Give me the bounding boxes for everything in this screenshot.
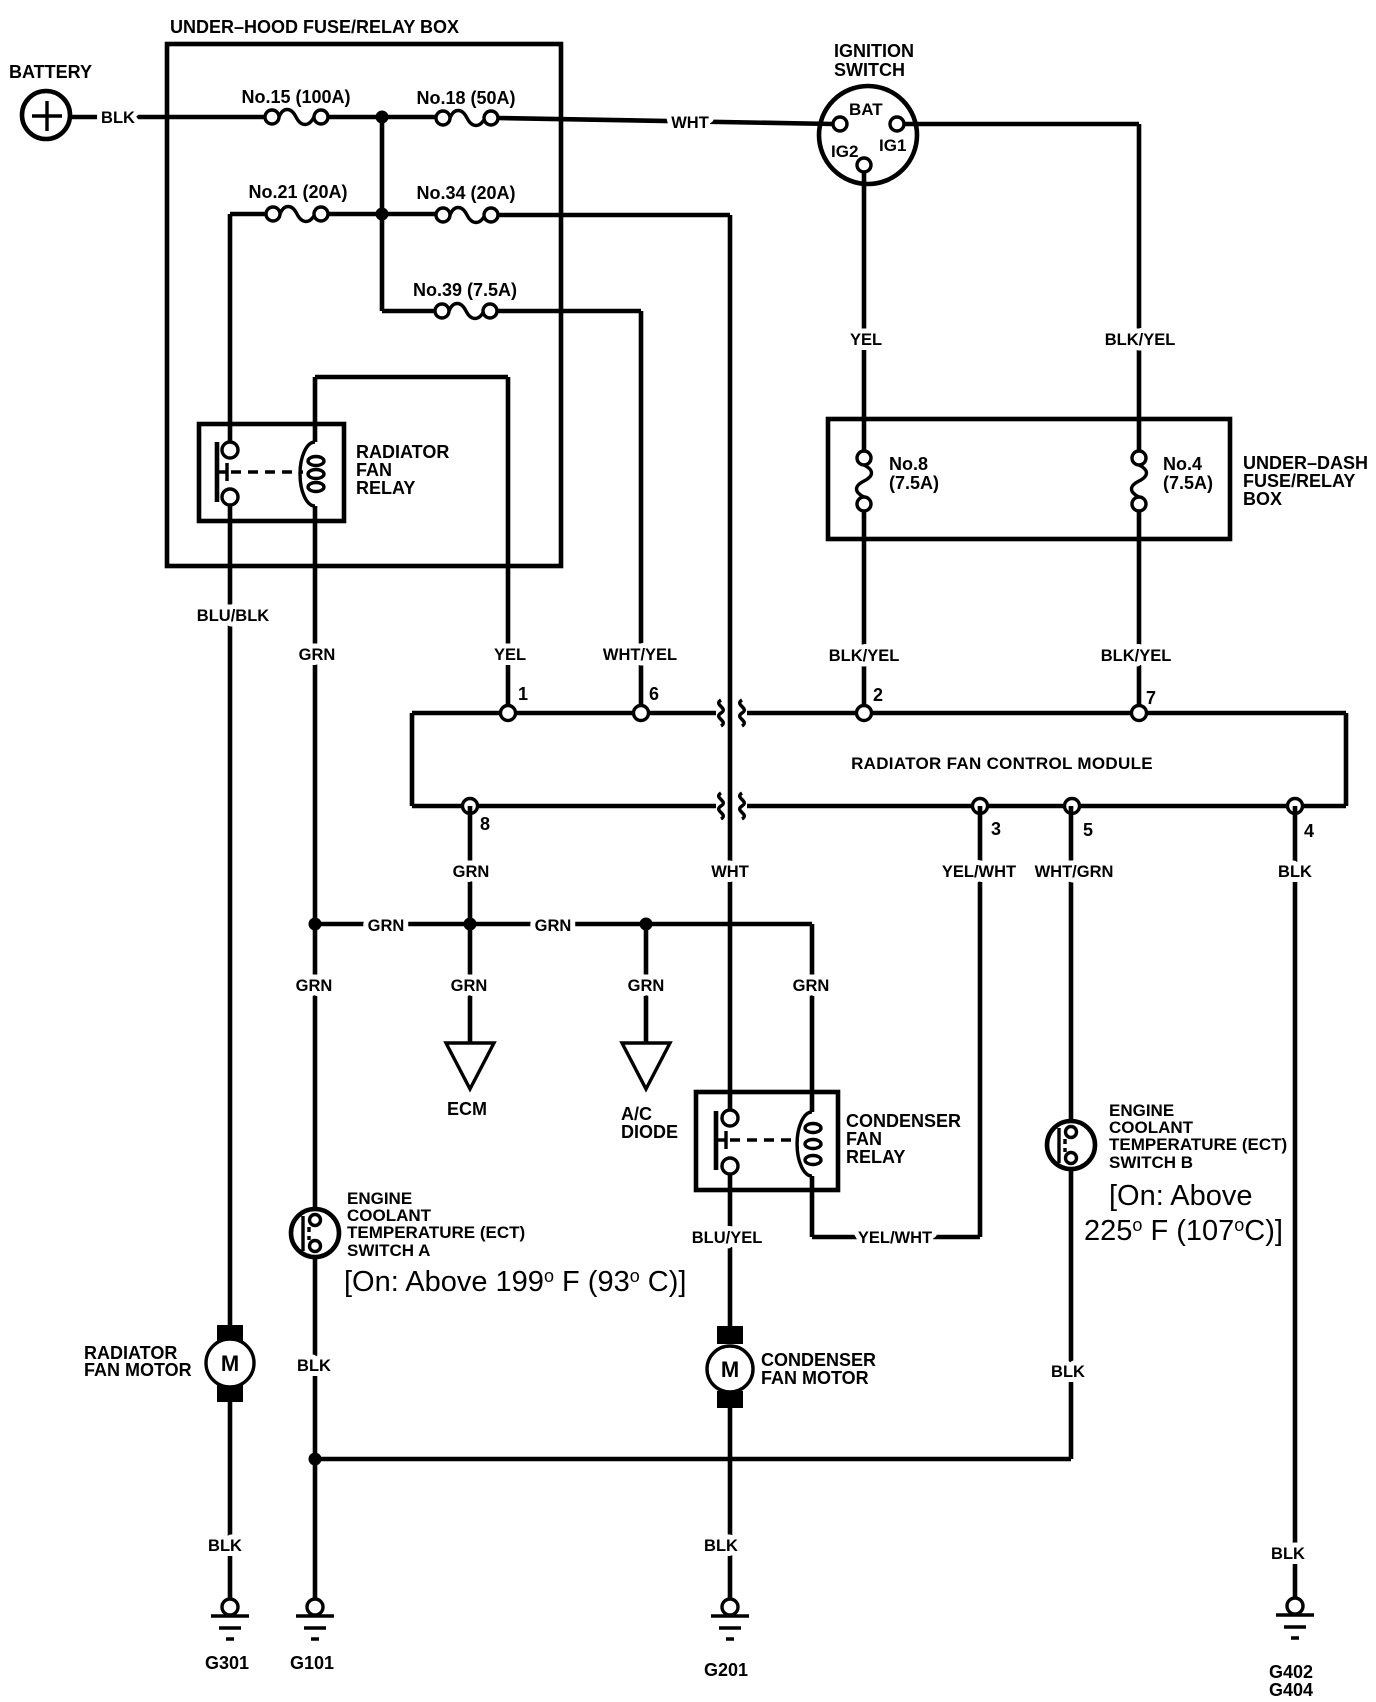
wire BLU/BLK relay contact down to radiator fan motor xyxy=(228,505,233,1325)
svg-text:WHT: WHT xyxy=(711,863,749,881)
svg-text:SWITCH A: SWITCH A xyxy=(347,1241,430,1260)
svg-text:M: M xyxy=(221,1351,239,1376)
terminal BAT xyxy=(833,117,847,131)
wire GRN relay coil down xyxy=(313,506,318,1209)
svg-text:CONDENSER: CONDENSER xyxy=(761,1350,876,1370)
wire BLK module pin 4 down to ground G402 xyxy=(1293,806,1298,1598)
svg-text:No.4: No.4 xyxy=(1163,454,1202,474)
svg-text:RADIATOR FAN CONTROL MODULE: RADIATOR FAN CONTROL MODULE xyxy=(851,754,1153,773)
wire BLU/YEL relay contact down to condenser fan motor xyxy=(728,1174,733,1326)
fuse No.18 (50A) xyxy=(436,111,498,126)
svg-text:YEL: YEL xyxy=(494,646,526,664)
svg-text:BLU/BLK: BLU/BLK xyxy=(197,607,269,625)
svg-text:FAN MOTOR: FAN MOTOR xyxy=(84,1360,192,1380)
svg-text:BLK: BLK xyxy=(704,1537,738,1555)
svg-text:WHT/GRN: WHT/GRN xyxy=(1035,863,1114,881)
pin 4 xyxy=(1288,799,1303,814)
svg-text:225o F (107oC)]: 225o F (107oC)] xyxy=(1084,1215,1283,1247)
radiator fan relay RY1 xyxy=(199,424,344,521)
wire GRN distribution bus xyxy=(315,924,812,1112)
svg-text:No.18 (50A): No.18 (50A) xyxy=(416,88,515,108)
svg-text:IGNITION: IGNITION xyxy=(834,41,914,61)
svg-text:7: 7 xyxy=(1146,688,1156,708)
wire battery bus vertical xyxy=(382,117,435,311)
svg-text:4: 4 xyxy=(1304,821,1314,841)
svg-text:2: 2 xyxy=(873,685,883,705)
wire BLK ECT switch A down to ground G101 xyxy=(313,1257,318,1598)
pin 8 xyxy=(463,799,478,814)
svg-text:No.8: No.8 xyxy=(889,454,928,474)
ECT switch B SW3 xyxy=(1047,1121,1095,1169)
svg-text:M: M xyxy=(721,1357,739,1382)
svg-text:1: 1 xyxy=(518,684,528,704)
svg-text:GRN: GRN xyxy=(296,977,333,995)
svg-text:G201: G201 xyxy=(704,1660,748,1680)
svg-text:No.21 (20A): No.21 (20A) xyxy=(248,182,347,202)
svg-text:YEL/WHT: YEL/WHT xyxy=(858,1229,932,1247)
svg-text:No.39 (7.5A): No.39 (7.5A) xyxy=(413,280,517,300)
svg-text:BAT: BAT xyxy=(849,100,883,119)
svg-text:RELAY: RELAY xyxy=(356,478,415,498)
pin 3 xyxy=(973,799,988,814)
pin 1 xyxy=(501,706,516,721)
svg-text:UNDER–HOOD FUSE/RELAY BOX: UNDER–HOOD FUSE/RELAY BOX xyxy=(170,17,459,37)
wire GRN junction to A/C diode xyxy=(644,924,649,1043)
ECT switch A SW2 xyxy=(291,1209,339,1257)
svg-text:FAN MOTOR: FAN MOTOR xyxy=(761,1368,869,1388)
junction GRN at A/C diode column xyxy=(640,918,653,931)
svg-text:G301: G301 xyxy=(205,1653,249,1673)
svg-text:YEL: YEL xyxy=(850,331,882,349)
svg-text:BLK: BLK xyxy=(297,1357,331,1375)
svg-text:WHT/YEL: WHT/YEL xyxy=(603,646,677,664)
svg-text:SWITCH: SWITCH xyxy=(834,60,905,80)
svg-text:WHT: WHT xyxy=(671,114,709,132)
fuse No.4 (7.5A) xyxy=(1132,451,1147,511)
svg-text:IG1: IG1 xyxy=(879,136,906,155)
svg-text:RELAY: RELAY xyxy=(846,1147,905,1167)
A/C diode D1 xyxy=(622,1043,670,1089)
condenser fan relay RY2 xyxy=(696,1092,838,1190)
wire No.21 feed corner xyxy=(230,212,266,217)
svg-text:6: 6 xyxy=(649,684,659,704)
wire YEL relay coil up over to module pin 1 xyxy=(315,377,508,713)
fuse No.15 (100A) xyxy=(265,110,328,125)
wire BLK radiator fan motor to ground G301 xyxy=(228,1402,233,1598)
junction battery bus mid xyxy=(376,208,389,221)
radiator fan motor M1 xyxy=(206,1325,254,1402)
ground G301 xyxy=(211,1599,249,1639)
svg-text:FUSE/RELAY: FUSE/RELAY xyxy=(1243,471,1355,491)
terminal IG2 xyxy=(857,158,871,172)
svg-text:GRN: GRN xyxy=(368,917,405,935)
wire WHT fuse No.18 to ignition switch BAT xyxy=(498,118,833,124)
svg-text:BOX: BOX xyxy=(1243,489,1282,509)
pin 5 xyxy=(1065,799,1080,814)
under-dash fuse/relay box xyxy=(828,419,1230,539)
svg-text:GRN: GRN xyxy=(535,917,572,935)
wire WHT/YEL fuse No.39 to module pin 6 xyxy=(497,311,641,713)
svg-text:BLK: BLK xyxy=(1278,863,1312,881)
svg-text:UNDER–DASH: UNDER–DASH xyxy=(1243,453,1368,473)
wire BLK/YEL fuse No.8 to module pin 2 xyxy=(862,511,867,713)
wire YEL/WHT module pin 3 down xyxy=(978,806,983,1237)
svg-text:GRN: GRN xyxy=(793,977,830,995)
svg-text:YEL/WHT: YEL/WHT xyxy=(942,863,1016,881)
pin 6 xyxy=(634,706,649,721)
svg-text:FAN: FAN xyxy=(356,460,392,480)
under-hood fuse/relay box xyxy=(167,44,561,566)
wire fuse No.21 to fuse No.34 xyxy=(328,212,436,217)
svg-text:5: 5 xyxy=(1083,820,1093,840)
fuse No.34 (20A) xyxy=(436,208,498,223)
svg-text:3: 3 xyxy=(991,819,1001,839)
svg-text:ECM: ECM xyxy=(447,1099,487,1119)
svg-text:No.34 (20A): No.34 (20A) xyxy=(416,183,515,203)
wire YEL/WHT condenser relay coil to pin 3 column xyxy=(812,1176,980,1237)
svg-text:G402: G402 xyxy=(1269,1662,1313,1682)
svg-text:[On: Above: [On: Above xyxy=(1109,1180,1253,1212)
ground G402 G404 xyxy=(1276,1598,1314,1638)
wire No.21 down to relay contact xyxy=(228,214,233,442)
svg-text:8: 8 xyxy=(480,814,490,834)
svg-text:TEMPERATURE (ECT): TEMPERATURE (ECT) xyxy=(1109,1135,1287,1154)
fuse No.8 (7.5A) xyxy=(857,451,872,511)
radiator fan control module U1 xyxy=(412,700,1346,819)
svg-text:BLK/YEL: BLK/YEL xyxy=(829,647,900,665)
svg-text:DIODE: DIODE xyxy=(621,1122,678,1142)
battery B1 xyxy=(22,91,70,139)
svg-text:BLK: BLK xyxy=(101,109,135,127)
ECM connection arrow xyxy=(446,1043,494,1089)
svg-text:BLK/YEL: BLK/YEL xyxy=(1101,647,1172,665)
wire GRN module pin 8 down to ECM xyxy=(468,806,473,1043)
pin 7 xyxy=(1132,706,1147,721)
svg-text:RADIATOR: RADIATOR xyxy=(356,442,449,462)
ground G201 xyxy=(711,1599,749,1639)
svg-text:GRN: GRN xyxy=(451,977,488,995)
svg-text:(7.5A): (7.5A) xyxy=(889,473,939,493)
fuse No.39 (7.5A) xyxy=(435,304,497,319)
wire BLK condenser fan motor to ground G201 xyxy=(728,1408,733,1598)
svg-text:G404: G404 xyxy=(1269,1680,1313,1700)
svg-text:BLK: BLK xyxy=(1271,1545,1305,1563)
wire IG2 down xyxy=(862,172,867,451)
svg-text:SWITCH B: SWITCH B xyxy=(1109,1153,1193,1172)
svg-text:GRN: GRN xyxy=(299,646,336,664)
junction GRN at ECM column xyxy=(464,918,477,931)
svg-text:TEMPERATURE (ECT): TEMPERATURE (ECT) xyxy=(347,1223,525,1242)
svg-text:BLK: BLK xyxy=(1051,1363,1085,1381)
ignition switch SW1 xyxy=(819,86,917,184)
wire BLK/YEL fuse No.4 to module pin 7 xyxy=(1137,511,1142,713)
svg-text:FAN: FAN xyxy=(846,1129,882,1149)
wire WHT fuse No.34 down the middle to condenser fan relay xyxy=(498,215,730,1111)
wire BLK bottom bus to ECT switch B xyxy=(315,1169,1071,1459)
wire fuse No.15 to fuse No.18 xyxy=(328,115,436,120)
svg-text:No.15 (100A): No.15 (100A) xyxy=(241,87,350,107)
junction bottom bus at ECT A column xyxy=(309,1453,322,1466)
junction battery bus top xyxy=(376,111,389,124)
svg-text:G101: G101 xyxy=(290,1653,334,1673)
svg-text:BATTERY: BATTERY xyxy=(9,62,92,82)
svg-text:GRN: GRN xyxy=(628,977,665,995)
svg-text:BLK/YEL: BLK/YEL xyxy=(1105,331,1176,349)
fuse No.21 (20A) xyxy=(266,207,328,222)
junction GRN at ECT switch A column xyxy=(309,918,322,931)
terminal IG1 xyxy=(890,117,904,131)
ground G101 xyxy=(296,1599,334,1639)
condenser fan motor M2 xyxy=(707,1326,753,1408)
pin 2 xyxy=(857,706,872,721)
svg-text:CONDENSER: CONDENSER xyxy=(846,1111,961,1131)
svg-text:GRN: GRN xyxy=(453,863,490,881)
svg-text:A/C: A/C xyxy=(621,1104,652,1124)
svg-text:IG2: IG2 xyxy=(831,142,858,161)
wire WHT/GRN module pin 5 to ECT switch B xyxy=(1069,806,1074,1122)
svg-text:(7.5A): (7.5A) xyxy=(1163,473,1213,493)
wire IG1 to under-dash corner xyxy=(904,124,1139,451)
wire battery to fuse No.15 xyxy=(70,115,265,120)
svg-text:BLU/YEL: BLU/YEL xyxy=(692,1229,763,1247)
svg-text:BLK: BLK xyxy=(208,1537,242,1555)
